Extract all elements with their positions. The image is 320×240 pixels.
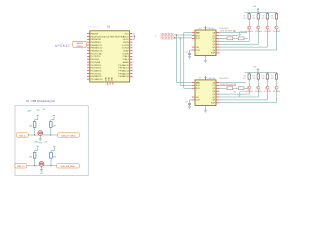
series resistor R9 (219, 37, 233, 40)
svg-text:PC7/ICP3: PC7/ICP3 (91, 56, 102, 58)
svg-text:150: 150 (43, 109, 46, 111)
wire U2 output 1 to Q1 (219, 30, 249, 42)
svg-text:SER: SER (196, 82, 201, 84)
driver row 2 emitter wire (240, 91, 248, 93)
svg-text:+5V: +5V (253, 6, 257, 8)
U1 left pin 12 (87, 64, 90, 66)
U1 left pin 7 (87, 50, 90, 52)
svg-text:2 3 4: 2 3 4 (105, 85, 109, 87)
U1 right pin 38 (130, 50, 133, 52)
svg-text:PB4/ADC11: PB4/ADC11 (91, 44, 103, 47)
svg-text:22R: 22R (29, 156, 33, 158)
wire U3 output 2 to Q6 (219, 90, 258, 97)
svg-text:+5V: +5V (36, 110, 40, 112)
U1 right pin 42 (130, 38, 133, 40)
ESD circuit 1 pull resistor 1 (33, 116, 38, 135)
U1 bottom pin 1 (106, 82, 108, 85)
U1 right pin 34 (130, 61, 133, 63)
svg-text:PB2/MOSI: PB2/MOSI (91, 39, 102, 41)
svg-text:GND: GND (106, 76, 108, 81)
U1 left pin 14 (87, 70, 90, 72)
U2 right pin 8 (216, 52, 219, 54)
svg-text:1K2: 1K2 (253, 78, 256, 80)
U1 left pin 13 (87, 67, 90, 69)
driver row 2 transistor Q6 (257, 86, 260, 89)
junction bus drop 1 (176, 35, 177, 36)
driver row 2 wire resistor to transistor (257, 81, 259, 87)
U1 left pin 11 (87, 61, 90, 63)
svg-text:GND: GND (109, 76, 111, 81)
wire U2 output 4 to Q4 (219, 30, 276, 51)
ESD circuit 2 power flag 1 (37, 146, 39, 147)
U3 right pin 5 (216, 93, 219, 95)
svg-text:PD6/ADC9: PD6/ADC9 (91, 75, 102, 78)
U2 bypass cap wire (190, 50, 192, 53)
wire U3 output 4 to Q8 (219, 90, 276, 103)
junction bus drop 2 (180, 37, 181, 38)
svg-text:GND: GND (40, 173, 45, 175)
U2 right pin 3 (216, 37, 219, 39)
driver row 1 wire resistor to transistor (257, 20, 259, 26)
driver row 2 transistor Q5 (248, 86, 251, 89)
U3 left pin row 7 (192, 99, 195, 101)
ESD circuit 1 left net port (16, 133, 28, 137)
svg-text:MEGA32U4: MEGA32U4 (88, 25, 100, 28)
svg-text:VCC: VCC (124, 33, 129, 35)
svg-text:+5V: +5V (198, 78, 202, 80)
driver row 1 resistor R12 (275, 12, 277, 20)
svg-text:PB6/ADC13: PB6/ADC13 (91, 50, 104, 53)
wire J2 to U2 SRCLK (174, 37, 192, 39)
driver row 1 resistor R10 (257, 12, 259, 20)
ESD circuit 2 signal wire (27, 165, 57, 167)
U3 cap ground (188, 106, 191, 108)
svg-text:PD1/SDA: PD1/SDA (91, 61, 101, 64)
U2 pin wire row2 short (219, 35, 238, 37)
U2 ground (204, 60, 207, 62)
svg-text:AREF: AREF (123, 61, 129, 64)
U2 left pin row 7 (192, 49, 195, 51)
U3 left pin row 1 (192, 82, 195, 84)
U1 left pin 5 (87, 44, 90, 46)
svg-text:QG: QG (212, 47, 216, 49)
svg-text:+5V: +5V (253, 66, 257, 68)
svg-text:CLR: CLR (196, 50, 201, 52)
wire U2 output 2 to Q2 (219, 30, 258, 45)
header J1 (160, 33, 174, 36)
ESD circuit 2 pull resistor 2 junction (51, 165, 52, 166)
ESD circuit 1 ground (39, 139, 42, 141)
header J1 pin 4 (171, 34, 172, 35)
ESD circuit 1 TVS ground wire (39, 136, 41, 139)
U1 right pin 43 (130, 35, 133, 37)
driver row 1 5V rail wire (245, 11, 277, 13)
U2 VCC wire (205, 27, 207, 30)
U1 right pin 39 (130, 47, 133, 49)
ESD circuit 1 right net port (58, 133, 80, 137)
ESD circuit 2 pull resistor 1 (33, 147, 38, 166)
U1 left pin 2 (87, 35, 90, 37)
svg-text:GND: GND (38, 142, 43, 144)
U2 left pin row 2 (192, 35, 195, 37)
svg-text:4: 4 (220, 91, 221, 93)
svg-text:USB_D-: USB_D- (19, 135, 27, 137)
U1 right pin 35 (130, 58, 133, 60)
svg-text:XTAL1: XTAL1 (122, 55, 129, 58)
svg-text:USB_DP_SBU1: USB_DP_SBU1 (61, 135, 76, 137)
svg-text:APSK42: APSK42 (55, 44, 70, 48)
svg-text:R10: R10 (262, 16, 265, 18)
header J1 pin 1 (162, 34, 163, 35)
svg-text:GND: GND (111, 76, 113, 81)
svg-text:8: 8 (220, 53, 221, 55)
U3 pin wire row1 short (219, 82, 246, 84)
svg-text:PD4/ADC8: PD4/ADC8 (91, 69, 102, 72)
U2 left pin row 1 (192, 32, 195, 34)
U1 bottom pin 2 (109, 82, 111, 85)
wire U2 output 3 to Q3 (219, 30, 267, 48)
driver row 1 power flag (257, 8, 259, 12)
svg-text:22R: 22R (29, 126, 33, 128)
U2 right pin 5 (216, 43, 219, 45)
ESD circuit 2 pull resistor 1 junction (34, 165, 35, 166)
svg-text:PB5/ADC12: PB5/ADC12 (91, 47, 104, 50)
U3 right pin 1 (216, 82, 219, 84)
header J2 pin 3 (168, 37, 169, 38)
svg-text:SCK: SCK (196, 35, 201, 37)
U3 left pin row 6 (192, 96, 195, 98)
svg-text:VBUS: VBUS (123, 42, 129, 44)
U2 GND wire (205, 56, 207, 61)
svg-text:PF1/ADC1: PF1/ADC1 (118, 67, 129, 70)
U3 bypass cap wire (190, 100, 192, 103)
series resistor R14 (233, 87, 248, 90)
wire bus drop 2 to U3 (180, 38, 192, 86)
driver row 1 wire resistor to transistor (248, 20, 250, 26)
svg-text:R9 4.7K R10 4.7K: R9 4.7K R10 4.7K (221, 30, 236, 32)
U1 right pin 40 (130, 44, 133, 46)
svg-text:SQH: SQH (211, 53, 216, 55)
svg-text:+5V: +5V (198, 28, 202, 30)
U3 right pin 6 (216, 96, 219, 98)
ESD circuit 1 pull resistor 2 (50, 116, 55, 135)
wire J1 to U2 SER (174, 34, 192, 36)
U2 right pin 4 (216, 40, 219, 42)
svg-text:04 - USB (Peripheral) port: 04 - USB (Peripheral) port (26, 100, 55, 103)
svg-text:C10 0.1u: C10 0.1u (208, 78, 216, 80)
wire net port to U1 (85, 44, 88, 46)
svg-text:PD7/ADC10: PD7/ADC10 (91, 78, 104, 81)
driver row 1 transistor Q3 (266, 26, 269, 29)
USB section border box (15, 106, 88, 176)
U2 power flag 5V (204, 27, 206, 30)
svg-text:PF0/ADC0: PF0/ADC0 (118, 64, 129, 67)
U3 pin wire row2 short (219, 84, 236, 86)
svg-text:PD3/TXD1: PD3/TXD1 (91, 68, 102, 70)
svg-text:+5V: +5V (44, 141, 48, 143)
U3 left pin row 2 (192, 84, 195, 86)
svg-text:R12: R12 (243, 76, 246, 78)
shift register U3 body (195, 80, 216, 106)
ESD circuit 1 pull resistor 1 junction (34, 135, 35, 136)
svg-text:SER: SER (196, 32, 201, 34)
U2 cap ground (188, 56, 191, 58)
net port GBGB (73, 41, 86, 47)
svg-text:QG: QG (212, 97, 216, 99)
svg-text:C9: C9 (185, 52, 187, 54)
U1 right pin 31 (130, 70, 133, 72)
svg-text:22R: 22R (53, 126, 57, 128)
U1 right pin 37 (130, 53, 133, 55)
svg-text:UGND: UGND (122, 53, 129, 55)
U1 left pin 16 (87, 75, 90, 77)
U1 left pin 6 (87, 47, 90, 49)
svg-text:1K2: 1K2 (262, 18, 265, 20)
wire bus drop 3 U2 to U3 (184, 33, 192, 89)
svg-text:R11: R11 (271, 16, 274, 18)
svg-text:U1: U1 (107, 25, 111, 29)
header J1 pin 3 (168, 34, 169, 35)
driver row 1 transistor Q2 (257, 26, 260, 29)
U2 right pin 7 (216, 49, 219, 51)
svg-text:UCAP: UCAP (123, 50, 130, 53)
svg-text:R13: R13 (253, 76, 256, 78)
driver row 2 power flag (257, 69, 259, 73)
svg-text:PB1/PCINT1/SCLK PB2 PB3 PB7: PB1/PCINT1/SCLK PB2 PB3 PB7 (91, 36, 125, 38)
svg-text:22R: 22R (53, 156, 57, 158)
U1 right pin 36 (130, 55, 133, 57)
ESD circuit 1 power flag 1 (37, 115, 39, 116)
ESD circuit 1 signal wire (28, 134, 57, 136)
driver row 2 resistor R14 (257, 73, 259, 81)
svg-text:PD2/RXD1: PD2/RXD1 (91, 65, 102, 67)
U1 right pin 32 (130, 67, 133, 69)
U1 left pin 15 (87, 73, 90, 75)
svg-text:SQH: SQH (211, 103, 216, 105)
svg-text:LED: LED (233, 91, 237, 93)
driver row 1 wire resistor to transistor (276, 20, 278, 26)
U1 left pin 1 (87, 33, 90, 35)
ESD circuit 2 ground (40, 170, 43, 172)
ESD circuit 1 TVS diode (38, 131, 43, 136)
U3 GND wire (205, 106, 207, 111)
U3 right pin 4 (216, 90, 219, 92)
driver row 1 emitter wire (240, 31, 248, 33)
svg-text:1K2: 1K2 (262, 78, 265, 80)
U1 left pin 9 (87, 55, 90, 57)
U3 bypass cap (188, 103, 191, 106)
ESD circuit 2 power flag 2 (53, 146, 55, 147)
svg-text:PF4/ADC4: PF4/ADC4 (118, 69, 129, 72)
U3 power flag 5V (204, 77, 206, 80)
svg-text:CLR: CLR (196, 100, 201, 102)
U1 right pin 44 (130, 33, 133, 35)
svg-text:PF5/ADC5: PF5/ADC5 (118, 72, 129, 75)
svg-text:C9: C9 (185, 102, 187, 104)
svg-text:C8 0.1u: C8 0.1u (208, 28, 215, 30)
U3 VCC wire (205, 77, 207, 80)
U3 right pin 3 (216, 87, 219, 89)
ESD circuit 2 right net port (57, 164, 80, 168)
svg-text:PF6/ADC6: PF6/ADC6 (118, 75, 129, 78)
driver row 2 wire resistor to transistor (266, 81, 268, 87)
driver row 2 resistor R16 (275, 73, 277, 81)
svg-text:USB_D+: USB_D+ (17, 166, 26, 168)
svg-text:PD0/SCL: PD0/SCL (91, 59, 101, 61)
svg-text:1K2: 1K2 (243, 78, 246, 80)
series resistor R10 (233, 37, 248, 40)
svg-text:1K2: 1K2 (243, 18, 246, 20)
U1 bottom pin 3 (112, 82, 114, 85)
svg-text:R14: R14 (262, 76, 265, 78)
svg-text:1K2: 1K2 (271, 18, 274, 20)
svg-text:USB_DM_SBU2: USB_DM_SBU2 (61, 166, 77, 168)
driver row 2 wire resistor to transistor (248, 81, 250, 87)
U1 left pin 8 (87, 53, 90, 55)
driver row 1 resistor R9 (248, 12, 250, 20)
U1 left pin 17 (87, 78, 90, 80)
series resistor R13 (219, 87, 233, 90)
U3 left pin row 3 (192, 87, 195, 89)
svg-text:D-/NDI: D-/NDI (122, 48, 129, 50)
U2 left pin row 3 (192, 37, 195, 39)
header J1 pin 2 (165, 34, 166, 35)
svg-text:R9: R9 (253, 16, 255, 18)
driver row 2 resistor R13 (248, 73, 250, 81)
svg-text:GBGB: GBGB (76, 46, 83, 48)
U2 right pin 6 (216, 46, 219, 48)
mcu U1 body (90, 31, 130, 82)
svg-text:R15: R15 (271, 76, 274, 78)
ESD circuit 2 TVS ground wire (41, 166, 43, 169)
shift register U2 body (195, 30, 216, 56)
svg-text:PB3/MISO: PB3/MISO (91, 42, 102, 44)
svg-text:+3V3: +3V3 (27, 110, 33, 112)
U2 pin wire row1 short (219, 32, 247, 34)
driver row 1 wire resistor to transistor (266, 20, 268, 26)
U2 left pin row 6 (192, 46, 195, 48)
wire U1 pin to 3.3V flag (133, 38, 134, 40)
svg-text:1K2: 1K2 (271, 78, 274, 80)
ESD circuit 1 pull resistor 2 junction (50, 135, 51, 136)
junction at J2 wire (174, 37, 175, 38)
driver row 1 emitter ground (238, 32, 241, 36)
U1 left pin 4 (87, 41, 90, 43)
wire U3 output 1 to Q5 (219, 90, 249, 95)
svg-text:PD5/XCK1: PD5/XCK1 (91, 73, 102, 75)
wire U3 output 3 to Q7 (219, 90, 267, 100)
svg-text:R8: R8 (243, 16, 245, 18)
driver row 2 transistor Q7 (266, 86, 269, 89)
svg-text:PC6/OC3A: PC6/OC3A (91, 52, 102, 55)
U1 right pin 33 (130, 64, 133, 66)
svg-text:J6: J6 (155, 36, 158, 38)
svg-text:PB0/SS: PB0/SS (91, 33, 99, 35)
ESD circuit 2 left net port (15, 164, 27, 168)
svg-text:XTAL2: XTAL2 (122, 58, 129, 61)
svg-text:RCK: RCK (196, 38, 201, 40)
U2 bypass cap (188, 53, 191, 56)
driver row 2 wire resistor to transistor (276, 81, 278, 87)
wire bus drop 1 to U3 (177, 35, 192, 83)
header J2 pin 2 (165, 37, 166, 38)
svg-text:+3.3V: +3.3V (130, 33, 136, 35)
header J2 pin 1 (162, 37, 163, 38)
U1 left pin 3 (87, 38, 90, 40)
U3 right pin 2 (216, 84, 219, 86)
U1 right pin 30 (130, 73, 133, 75)
svg-text:UVCC: UVCC (123, 39, 130, 41)
ESD circuit 1 power flag 2 (53, 115, 55, 116)
header J2 (160, 37, 174, 40)
ESD circuit 2 pull resistor 2 (50, 147, 55, 166)
U2 right pin 2 (216, 35, 219, 37)
driver row 2 emitter ground (238, 92, 241, 96)
svg-text:GBGB: GBGB (76, 43, 83, 45)
svg-text:D+/PDI: D+/PDI (122, 45, 130, 47)
driver row 1 transistor Q4 (275, 26, 278, 29)
U3 ground (204, 110, 207, 112)
svg-text:74HC595D: 74HC595D (219, 78, 229, 80)
U1 left pin 10 (87, 58, 90, 60)
driver row 1 transistor Q1 (248, 26, 251, 29)
svg-text:AVCC: AVCC (123, 35, 129, 38)
U1 right pin 29 (130, 75, 133, 77)
svg-text:R13 4.7K R14 4.7K: R13 4.7K R14 4.7K (221, 84, 237, 86)
U3 right pin 8 (216, 102, 219, 104)
driver row 2 5V rail wire (245, 72, 277, 74)
svg-text:RCK: RCK (196, 88, 201, 90)
U1 right pin 41 (130, 41, 133, 43)
driver row 2 resistor R15 (266, 73, 268, 81)
U2 right pin 1 (216, 32, 219, 34)
driver row 2 transistor Q8 (275, 86, 278, 89)
driver row 1 resistor R11 (266, 12, 268, 20)
U3 right pin 7 (216, 99, 219, 101)
ESD circuit 2 TVS diode (39, 161, 44, 166)
svg-text:1K2: 1K2 (253, 18, 256, 20)
svg-text:SCK: SCK (196, 85, 201, 87)
header J2 pin 4 (171, 37, 172, 38)
